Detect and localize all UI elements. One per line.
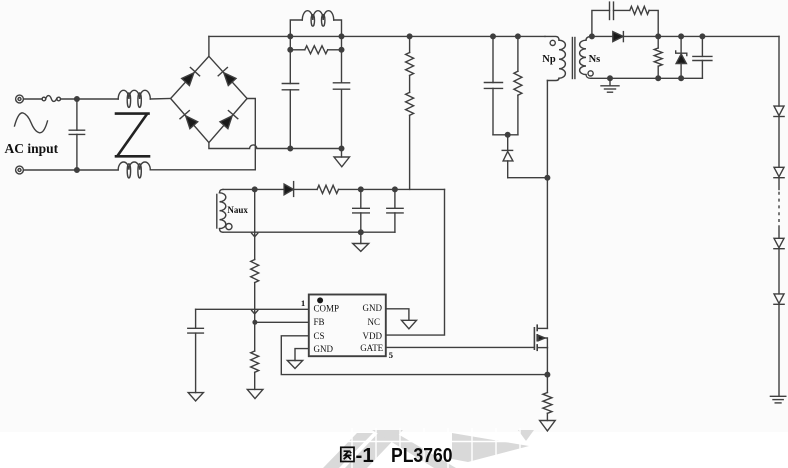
bridge rectifier BR1 bbox=[171, 56, 248, 142]
svg-text:-1: -1 bbox=[356, 444, 374, 467]
wire bbox=[294, 188, 318, 190]
junction snubber cap top bbox=[491, 34, 496, 39]
ground (IC GND left) bbox=[287, 361, 302, 369]
svg-text:GND: GND bbox=[314, 344, 334, 354]
wire divider down to aux rail bbox=[409, 115, 411, 189]
wire GND pin left bbox=[295, 349, 309, 361]
bridge diode D1 (left-top) bbox=[182, 73, 194, 86]
junction top AC bbox=[75, 97, 80, 102]
wire bbox=[778, 117, 780, 168]
AC terminal bottom bbox=[16, 166, 24, 174]
ground (sense) bbox=[540, 421, 556, 431]
wire bbox=[254, 372, 256, 389]
AC terminal top bbox=[16, 95, 24, 103]
svg-text:1: 1 bbox=[301, 298, 305, 308]
wire bbox=[150, 98, 170, 101]
ground (pi filter) bbox=[341, 149, 343, 158]
sine wave symbol bbox=[15, 113, 48, 133]
junction dots negative rail bbox=[288, 146, 293, 151]
ground (IC GND right) bbox=[402, 320, 417, 329]
transformer secondary winding Ns bbox=[586, 36, 592, 40]
capacitor C5 output bbox=[700, 34, 705, 39]
svg-text:CS: CS bbox=[314, 331, 325, 341]
svg-text:Ns: Ns bbox=[589, 54, 601, 65]
inductor L1 top line bbox=[118, 90, 150, 99]
svg-text:COMP: COMP bbox=[314, 304, 340, 314]
earth ground secondary bbox=[609, 78, 611, 86]
junction bottom AC bbox=[75, 168, 80, 173]
resistor R1 parallel with L3 bbox=[289, 36, 291, 49]
wire bbox=[254, 283, 256, 351]
svg-text:GND: GND bbox=[363, 303, 383, 313]
aux core line bbox=[216, 194, 218, 228]
svg-text:VDD: VDD bbox=[363, 331, 383, 341]
junction C7 top bbox=[393, 187, 398, 192]
watermark logo bbox=[323, 430, 534, 468]
resistor R7 bbox=[317, 185, 338, 193]
junction Ns top bbox=[590, 34, 595, 39]
wire VDD riser bbox=[386, 189, 445, 335]
svg-text:NC: NC bbox=[367, 317, 380, 327]
capacitor C6 bbox=[360, 189, 362, 208]
wire COMP line bbox=[196, 308, 309, 310]
zener diode Z1 bbox=[679, 34, 684, 39]
transistor Q1 MOSFET bbox=[534, 325, 537, 350]
wire GATE line bbox=[386, 346, 535, 348]
resistor R2 bbox=[409, 36, 411, 52]
bridge diode D4 (bottom-right) bbox=[220, 116, 232, 129]
ground (aux caps) bbox=[360, 232, 362, 243]
ground (R9) bbox=[247, 389, 263, 398]
svg-text:Naux: Naux bbox=[227, 205, 248, 215]
wire aux bottom rail bbox=[223, 231, 395, 233]
impedance Z symbol bbox=[116, 114, 149, 157]
resistor R9 bbox=[251, 351, 259, 372]
svg-text:PL3760: PL3760 bbox=[391, 444, 453, 467]
capacitor C1 bbox=[289, 50, 291, 84]
junction aux ground node bbox=[359, 230, 364, 235]
wire drain line bbox=[546, 81, 548, 329]
wire with dotted continuation bbox=[778, 178, 780, 190]
wire bottom AC bbox=[24, 169, 119, 171]
capacitor CX1 across line bbox=[76, 99, 78, 130]
transformer core bbox=[571, 38, 573, 79]
polarity dot Naux bbox=[226, 224, 232, 230]
wire FB line bbox=[255, 321, 309, 323]
junction FB tap bbox=[253, 321, 257, 325]
crossing tick at COMP line bbox=[252, 310, 258, 314]
crossing tick bbox=[252, 233, 258, 237]
wire bbox=[546, 413, 548, 420]
bridge diode D2 (right-top) bbox=[224, 73, 236, 86]
wire aux node down bbox=[254, 189, 256, 259]
IC U1 PL3760 bbox=[309, 295, 386, 357]
wire aux rail to VDD riser bbox=[339, 188, 445, 190]
svg-text:GATE: GATE bbox=[360, 343, 383, 353]
wire aux top rail bbox=[223, 188, 284, 190]
wire GND pin right bbox=[386, 309, 409, 321]
wire LED string drop bbox=[778, 36, 780, 106]
ground (C8) bbox=[188, 393, 203, 401]
wire bridge top to rail bbox=[208, 36, 210, 56]
junction dots pi filter bbox=[288, 34, 293, 39]
capacitor C2 bbox=[341, 50, 343, 83]
svg-text:5: 5 bbox=[389, 350, 394, 360]
wire secondary top rail bbox=[592, 35, 779, 37]
junction snubber res top bbox=[516, 34, 521, 39]
capacitor C8 COMP bbox=[195, 309, 197, 328]
LED D8 bbox=[774, 167, 784, 177]
capacitor C4 snubber bbox=[609, 2, 611, 19]
junction ground tap bbox=[608, 76, 613, 81]
fuse F1 bbox=[42, 97, 46, 101]
LED D9 bbox=[774, 238, 784, 248]
resistor R6 load bbox=[657, 36, 659, 48]
bridge diode D3 (bottom-left) bbox=[186, 116, 198, 129]
wire bbox=[409, 75, 411, 92]
svg-text:Np: Np bbox=[542, 54, 556, 65]
LED D7 bbox=[774, 106, 784, 116]
inductor L3 pi filter bbox=[290, 20, 302, 36]
junction divider top bbox=[407, 34, 412, 39]
wire bbox=[778, 249, 780, 294]
svg-text:AC input: AC input bbox=[5, 141, 59, 156]
wire bbox=[61, 98, 119, 100]
capacitor C3 snubber bbox=[492, 36, 494, 82]
secondary snubber loop bbox=[592, 10, 610, 36]
resistor R5 snubber bbox=[630, 6, 649, 14]
wire bridge bottom to negative rail (with hop) bbox=[209, 143, 342, 149]
junction C6 top bbox=[359, 187, 364, 192]
resistor R4 snubber bbox=[517, 36, 519, 71]
polarity dot Ns bbox=[588, 71, 593, 76]
resistor R8 bbox=[251, 260, 259, 283]
wire bbox=[778, 304, 780, 396]
diode D5 clamp bbox=[507, 135, 509, 151]
transformer T1 primary winding Np bbox=[545, 36, 559, 40]
junction source/CS node bbox=[545, 372, 550, 377]
diode D2a aux rectifier bbox=[284, 184, 293, 195]
earth ground LED string bbox=[770, 395, 785, 397]
inductor L2 bottom line bbox=[118, 162, 150, 170]
junction aux/divider node bbox=[252, 187, 257, 192]
resistor R3 bbox=[406, 92, 414, 115]
wire main top rail bbox=[209, 35, 545, 37]
wire snubber bottom join bbox=[493, 134, 518, 136]
resistor R10 sense bbox=[543, 393, 552, 414]
capacitor C7 bbox=[394, 189, 396, 208]
LED D10 bbox=[774, 294, 784, 304]
wire CS pin bbox=[281, 336, 547, 375]
polarity dot Np bbox=[550, 40, 555, 45]
junction D6 cathode node bbox=[656, 34, 661, 39]
caption 图-1 PL3760 bbox=[341, 444, 453, 467]
pin 1 marker dot bbox=[317, 297, 323, 303]
wire source bbox=[546, 348, 548, 393]
wire snubber to drain node bbox=[508, 177, 548, 179]
wire bridge right vertex to bottom rail bbox=[247, 99, 255, 170]
diode D6 output rectifier bbox=[613, 32, 623, 42]
transformer auxiliary winding Naux bbox=[220, 189, 224, 192]
svg-text:FB: FB bbox=[314, 317, 325, 327]
wire bbox=[24, 98, 43, 100]
wire bottom rail to bridge bbox=[150, 169, 255, 171]
wire secondary bottom rail bbox=[592, 77, 703, 79]
junction drain node bbox=[545, 175, 550, 180]
